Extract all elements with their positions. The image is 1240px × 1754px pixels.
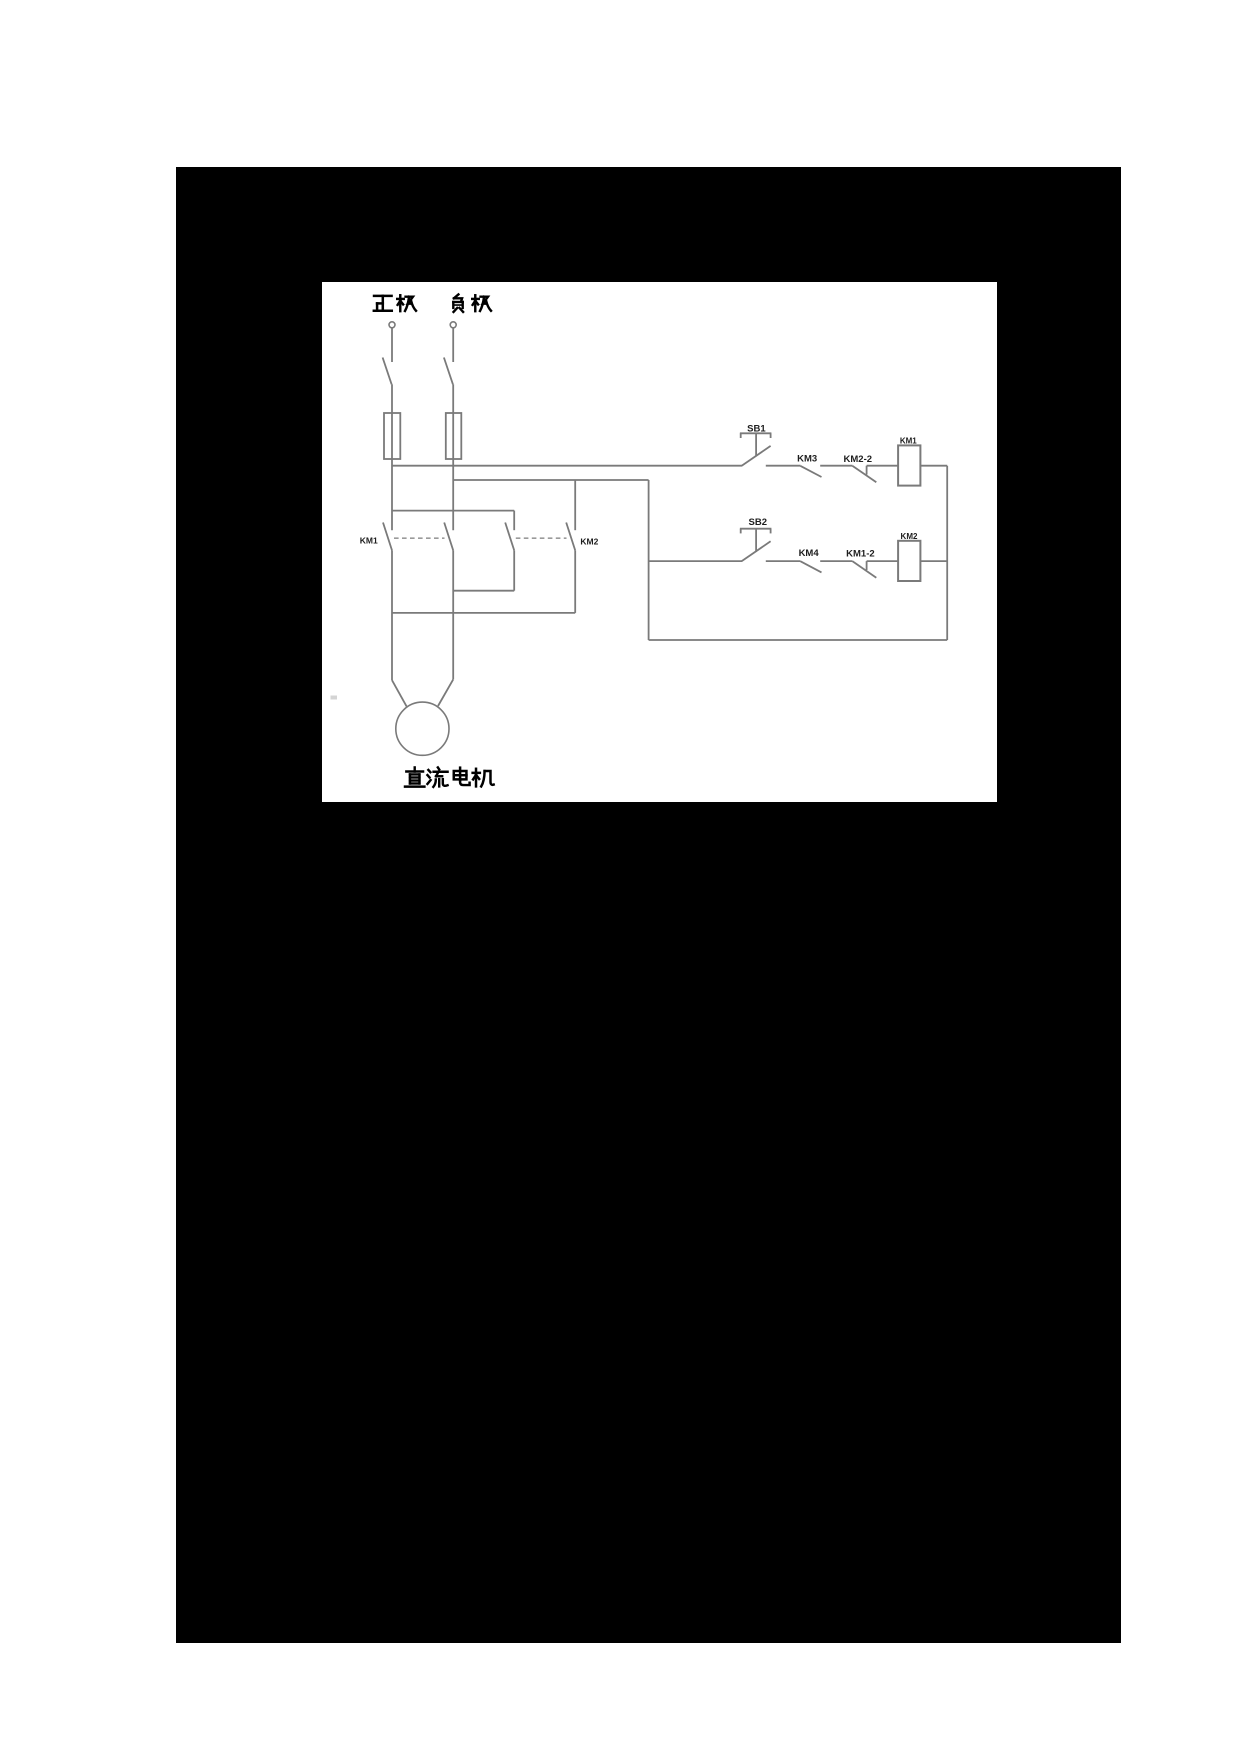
svg-text:KM1: KM1	[900, 437, 917, 446]
node 负极 terminal circle	[450, 322, 456, 328]
mechanical linkage dashes KM2	[516, 537, 567, 539]
svg-text:KM2: KM2	[580, 537, 598, 547]
wire row1 segment KM3-KM2-2	[820, 465, 852, 467]
pushbutton SB1 blade	[742, 446, 771, 466]
wire row2 feeder to SB2	[649, 560, 743, 562]
wire 正极 lead	[391, 328, 393, 362]
contact KM1-2 NC stop tick	[866, 561, 868, 570]
wire bottom control feeder	[649, 639, 948, 641]
svg-text:KM1-2: KM1-2	[846, 548, 875, 559]
wire row2 segment KM1-2 to coil	[867, 560, 899, 562]
coil KM2	[898, 541, 920, 581]
mechanical linkage dashes KM1	[394, 537, 445, 539]
svg-text:SB2: SB2	[749, 517, 767, 528]
wire 负极 column through fuse down to KM1 contact	[452, 384, 454, 530]
disconnect switch QS blade (正极 pole)	[383, 358, 392, 385]
wire right control vertical	[946, 466, 948, 640]
wire link col4 bottom to col1	[392, 612, 575, 614]
stray mark artifact	[331, 696, 338, 700]
wire KM2 left column top link	[392, 510, 514, 512]
wire row2 segment SB2-KM4	[766, 560, 801, 562]
contactor KM2 main contact blade (left pole)	[505, 523, 514, 551]
wire slant to motor left	[392, 680, 407, 706]
fuse FU1	[384, 413, 400, 459]
pushbutton SB1 actuator bar	[740, 432, 772, 434]
white schematic panel	[322, 282, 997, 802]
wire 负极 branch feeder	[453, 479, 648, 481]
contact KM3 blade	[801, 466, 822, 477]
svg-text:KM3: KM3	[797, 454, 817, 465]
wire 正极 column through fuse down to KM1 contact	[391, 384, 393, 530]
contactor KM1 main contact blade (left pole)	[383, 523, 392, 551]
contact KM1-2 blade	[853, 561, 877, 577]
pushbutton SB2 actuator bar	[740, 528, 772, 530]
pushbutton SB1 stem	[755, 433, 757, 456]
svg-text:KM2: KM2	[901, 532, 918, 541]
wire KM2 left column lower	[513, 550, 515, 590]
wire row1 segment SB1-KM3	[766, 465, 801, 467]
label 直流电机	[405, 767, 424, 786]
label 负极	[453, 294, 463, 312]
wire row1 segment KM2-2 to coil	[867, 465, 899, 467]
svg-text:KM2-2: KM2-2	[844, 454, 873, 465]
wire col2 lower	[452, 550, 454, 679]
pushbutton SB2 stem	[755, 529, 757, 552]
black figure background	[176, 167, 1121, 1643]
contact KM2-2 NC stop tick	[866, 466, 868, 475]
motor M circle	[396, 702, 449, 755]
wire KM2 right column lower	[574, 550, 576, 613]
contactor KM1 main contact blade (right pole)	[444, 523, 453, 551]
wire row2 segment KM4-KM1-2	[820, 560, 852, 562]
disconnect switch QS blade (负极 pole)	[444, 358, 453, 385]
fuse FU2	[446, 413, 462, 459]
node 正极 terminal circle	[389, 322, 395, 328]
contact KM2-2 blade	[853, 466, 877, 482]
wire slant to motor right	[438, 679, 453, 706]
wire left control vertical	[648, 480, 650, 640]
svg-text:KM1: KM1	[360, 536, 378, 546]
wire KM2 left column upper	[513, 511, 515, 531]
wire link col3 bottom to col2	[453, 590, 514, 592]
coil KM1	[898, 445, 920, 485]
pushbutton SB2 blade	[742, 541, 771, 561]
svg-text:SB1: SB1	[747, 424, 766, 435]
wire 负极 lead	[452, 328, 454, 362]
wire KM2 right column upper	[574, 480, 576, 530]
wire top control feeder	[392, 465, 742, 467]
svg-text:KM4: KM4	[799, 548, 820, 559]
wire row1 coil to right vertical	[920, 465, 947, 467]
label 正极	[374, 296, 392, 311]
wire col1 lower	[391, 550, 393, 680]
wire row2 coil to right vertical	[920, 560, 947, 562]
contactor KM2 main contact blade (right pole)	[566, 523, 575, 551]
contact KM4 blade	[801, 561, 822, 572]
